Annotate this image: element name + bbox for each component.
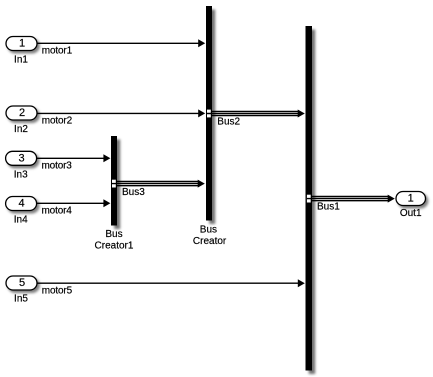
svg-text:1: 1 [19,38,25,50]
wire motor1 (In1 to Bus Creator pin 1) [37,39,206,47]
svg-text:Creator: Creator [193,236,227,247]
svg-text:2: 2 [19,107,25,119]
svg-text:Bus: Bus [200,225,217,236]
svg-text:motor3: motor3 [42,160,73,171]
bus wire Bus1 middle line and arrowhead [307,195,395,203]
svg-text:Creator1: Creator1 [95,241,134,252]
svg-text:In1: In1 [14,54,28,65]
svg-text:motor5: motor5 [42,286,73,297]
bus creator U3 "Bus Creator2" block bar [306,26,313,371]
svg-text:3: 3 [19,153,25,165]
input port In5 [6,276,37,290]
svg-text:motor2: motor2 [42,115,73,126]
svg-text:In4: In4 [14,214,28,225]
svg-text:motor1: motor1 [42,45,73,56]
svg-text:Bus2: Bus2 [217,117,240,128]
svg-text:Bus1: Bus1 [317,202,340,213]
svg-text:Bus3: Bus3 [122,187,145,198]
bus creator U1 "Bus Creator" block bar [206,6,212,221]
input port In1 [6,37,37,51]
output port square on Bus Creator2 [307,195,311,203]
svg-text:4: 4 [19,198,25,210]
svg-text:In5: In5 [14,294,28,305]
block label Bus Creator [193,225,227,248]
bus wire Bus2 outer lines (Bus Creator to Bus Creator2 pin 2) [210,111,298,115]
wire motor5 (In5 to Bus Creator2 pin 3) [37,279,305,287]
svg-text:5: 5 [19,277,25,289]
bus wire Bus2 middle line and arrowhead [207,110,305,118]
wire motor4 (In4 to Bus Creator1 pin 2) [37,199,111,207]
output port square on Bus Creator1 [112,180,116,188]
bus creator U2 "Bus Creator1" block bar [111,136,117,226]
wire motor2 (In2 to Bus Creator pin 2) [37,109,206,117]
input port In3 [6,151,37,165]
svg-text:In2: In2 [14,124,28,135]
svg-text:Out1: Out1 [400,208,422,219]
svg-text:Bus: Bus [105,229,122,240]
wire motor3 (In3 to Bus Creator1 pin 1) [37,154,111,162]
bus wire Bus3 middle line and arrowhead [112,180,205,188]
input port In4 [6,197,37,211]
bus wire Bus1 outer lines (Bus Creator2 to Out1) [310,197,388,201]
output port square on Bus Creator [207,110,211,118]
input port In2 [6,106,37,120]
svg-text:In3: In3 [14,169,28,180]
block label Bus Creator1 [95,229,134,252]
svg-text:1: 1 [408,193,414,205]
bus wire Bus3 outer lines (Bus Creator1 to Bus Creator pin 3) [115,182,198,186]
output port Out1 [396,192,426,206]
svg-text:motor4: motor4 [42,206,73,217]
